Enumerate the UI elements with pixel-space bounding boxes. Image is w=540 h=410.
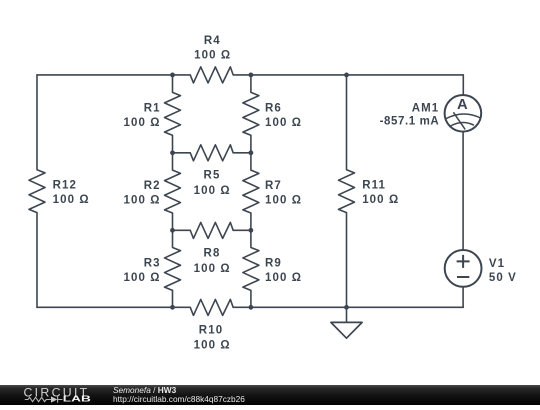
node at R10 right bbox=[249, 305, 254, 310]
node at R4 left bbox=[170, 73, 175, 78]
svg-text:100 Ω: 100 Ω bbox=[123, 272, 160, 284]
svg-text:100 Ω: 100 Ω bbox=[53, 194, 90, 206]
svg-text:100 Ω: 100 Ω bbox=[265, 117, 302, 129]
svg-text:R2: R2 bbox=[144, 180, 161, 192]
ammeter AM1 bbox=[445, 95, 482, 132]
footer bar bbox=[0, 385, 540, 405]
svg-text:100 Ω: 100 Ω bbox=[123, 195, 160, 207]
resistor R3 bbox=[165, 230, 181, 307]
svg-text:R7: R7 bbox=[265, 180, 282, 192]
resistor R2 bbox=[165, 153, 181, 231]
svg-text:100 Ω: 100 Ω bbox=[265, 272, 302, 284]
svg-text:50 V: 50 V bbox=[489, 272, 517, 284]
wire bottom rail left segment bbox=[37, 306, 173, 308]
svg-text:R4: R4 bbox=[204, 35, 221, 47]
svg-text:R1: R1 bbox=[144, 102, 161, 114]
node at R8 left bbox=[170, 228, 175, 233]
svg-text:R11: R11 bbox=[362, 180, 386, 192]
node at R4 right bbox=[249, 73, 254, 78]
resistor R6 bbox=[243, 75, 259, 153]
node at ground bbox=[344, 305, 349, 310]
svg-text:100 Ω: 100 Ω bbox=[123, 117, 160, 129]
wire ground stem bbox=[346, 307, 348, 322]
resistor R7 bbox=[243, 153, 259, 231]
svg-text:LAB: LAB bbox=[63, 394, 91, 404]
svg-text:A: A bbox=[457, 97, 468, 113]
svg-text:AM1: AM1 bbox=[412, 102, 440, 114]
svg-text:R5: R5 bbox=[204, 169, 221, 181]
footer url bbox=[113, 395, 245, 404]
wire ammeter top lead bbox=[462, 75, 464, 96]
svg-text:R8: R8 bbox=[204, 248, 221, 260]
svg-text:R12: R12 bbox=[53, 180, 77, 192]
resistor R9 bbox=[243, 230, 259, 307]
node at R8 right bbox=[249, 228, 254, 233]
svg-text:100 Ω: 100 Ω bbox=[194, 340, 231, 352]
svg-text:100 Ω: 100 Ω bbox=[194, 185, 231, 197]
svg-text:R9: R9 bbox=[265, 257, 282, 269]
CircuitLab logo bbox=[0, 385, 110, 405]
node at top of R11 bbox=[344, 73, 349, 78]
resistor R11 bbox=[339, 75, 355, 307]
resistor R5 bbox=[173, 145, 251, 161]
svg-text:R10: R10 bbox=[199, 324, 223, 336]
svg-text:R3: R3 bbox=[144, 257, 161, 269]
svg-text:R6: R6 bbox=[265, 102, 282, 114]
wire bottom rail right segment bbox=[251, 306, 463, 308]
wire source bottom lead bbox=[462, 286, 464, 307]
voltage source V1 bbox=[445, 250, 482, 287]
wire top rail right segment bbox=[251, 74, 463, 76]
node at R10 left bbox=[170, 305, 175, 310]
resistor R8 bbox=[173, 222, 251, 238]
resistor R4 bbox=[173, 67, 251, 83]
svg-text:V1: V1 bbox=[489, 258, 505, 270]
wire top rail left segment bbox=[37, 74, 173, 76]
resistor R10 bbox=[173, 299, 251, 315]
svg-text:100 Ω: 100 Ω bbox=[265, 195, 302, 207]
node at R5 left bbox=[170, 150, 175, 155]
footer title bbox=[113, 386, 176, 395]
resistor R12 bbox=[29, 75, 45, 307]
svg-text:100 Ω: 100 Ω bbox=[194, 263, 231, 275]
svg-text:-857.1 mA: -857.1 mA bbox=[380, 116, 440, 128]
svg-text:100 Ω: 100 Ω bbox=[194, 50, 231, 62]
node at R5 right bbox=[249, 150, 254, 155]
resistor R1 bbox=[165, 75, 181, 153]
svg-text:100 Ω: 100 Ω bbox=[362, 194, 399, 206]
ground bbox=[331, 322, 362, 338]
wire ammeter to source bbox=[462, 131, 464, 250]
